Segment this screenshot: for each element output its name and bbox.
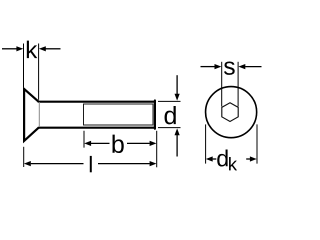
screw head outline (side view): [24, 89, 38, 141]
dimension l: right arrow: [98, 163, 150, 165]
label d: [165, 106, 176, 124]
dimension b: right arrow: [127, 142, 150, 144]
dimension b: left arrow: [84, 141, 91, 146]
thread region (thin rectangle): [84, 104, 154, 125]
dimension k: left arrow: [2, 48, 17, 50]
dimension s: extension line right: [237, 62, 239, 107]
dimension l: left arrow: [24, 161, 31, 166]
dimension dk: extension line right: [256, 124, 258, 163]
dimension d: bottom arrow (up): [176, 135, 178, 157]
shared extension line right (b and l): [156, 131, 158, 168]
label s: [224, 61, 235, 74]
head/shank junction line: [38, 102, 40, 127]
label l: [90, 156, 92, 172]
dimension s: left arrow: [201, 66, 215, 68]
screw shank outline: [39, 101, 155, 129]
dimension d: extension line top: [158, 100, 181, 102]
dimension b: extension line left: [83, 131, 85, 148]
dimension s: extension line left: [221, 62, 223, 107]
hex socket: [222, 103, 238, 122]
dimension k: right arrow: [45, 48, 60, 50]
dimension d: top arrow (down): [176, 75, 178, 94]
label b: [112, 135, 123, 153]
dimension s: right arrow: [245, 66, 261, 68]
label k: [27, 41, 37, 58]
label dk: [217, 150, 227, 167]
dimension l: extension line left: [23, 147, 25, 167]
dimension d: extension line bottom: [158, 127, 181, 129]
dimension k: extension line left: [23, 44, 25, 88]
head circle (top view): [206, 87, 257, 138]
dimension dk: left arrow: [206, 156, 213, 161]
dimension dk: extension line left: [205, 124, 207, 163]
dimension k: extension line right: [38, 44, 40, 100]
dimension dk: right arrow: [246, 158, 250, 160]
